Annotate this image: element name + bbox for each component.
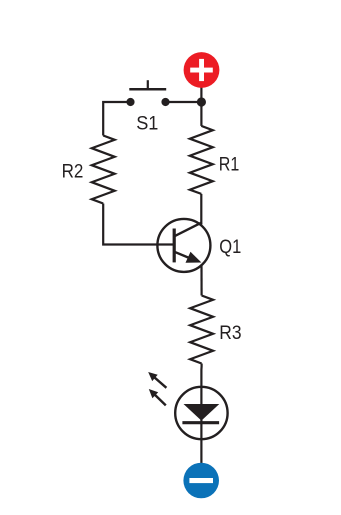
junction dot at top node bbox=[197, 97, 206, 106]
Q1 circle bbox=[157, 219, 210, 272]
wire: transistor emitter down to R3 top bbox=[200, 265, 202, 296]
Q1 base bar bbox=[173, 229, 176, 263]
Q1 emitter arrowhead bbox=[186, 252, 202, 263]
LED light arrow lower bbox=[149, 389, 166, 405]
Q1 emitter diagonal bbox=[175, 252, 193, 259]
resistor R2 bbox=[92, 136, 115, 204]
svg-text:R2: R2 bbox=[62, 160, 84, 182]
wire: through LED to negative terminal bbox=[200, 388, 202, 464]
wire: junction to switch right contact bbox=[166, 101, 202, 103]
resistor R1 bbox=[190, 126, 213, 194]
switch actuator stem bbox=[147, 80, 149, 89]
resistor R3 bbox=[190, 296, 213, 364]
wire: R1 bottom down to transistor collector bbox=[200, 194, 202, 225]
svg-text:R3: R3 bbox=[219, 322, 241, 344]
transistor Q1 bbox=[157, 219, 210, 272]
pushbutton switch S1 bbox=[126, 80, 169, 106]
wire: R2 bottom down and right to transistor base bbox=[103, 204, 174, 245]
wire: switch left contact to left corner and down to R2 top bbox=[103, 102, 130, 136]
svg-text:R1: R1 bbox=[219, 154, 240, 176]
switch actuator bar bbox=[129, 88, 166, 91]
switch contact dot right bbox=[161, 98, 169, 106]
positive supply terminal bbox=[184, 52, 220, 88]
switch contact dot left bbox=[126, 98, 134, 106]
LED bbox=[175, 387, 227, 439]
LED cathode bar bbox=[182, 421, 219, 424]
LED anode triangle bbox=[184, 404, 220, 421]
LED light arrow upper bbox=[148, 372, 166, 388]
LED circle bbox=[175, 387, 227, 439]
Q1 collector diagonal bbox=[175, 222, 202, 236]
wire: R3 bottom down to LED bbox=[200, 364, 202, 389]
negative supply terminal bbox=[183, 463, 219, 499]
wire: positive terminal to junction and down to R1 top bbox=[200, 85, 202, 126]
svg-text:Q1: Q1 bbox=[219, 236, 241, 258]
svg-text:S1: S1 bbox=[136, 112, 158, 134]
